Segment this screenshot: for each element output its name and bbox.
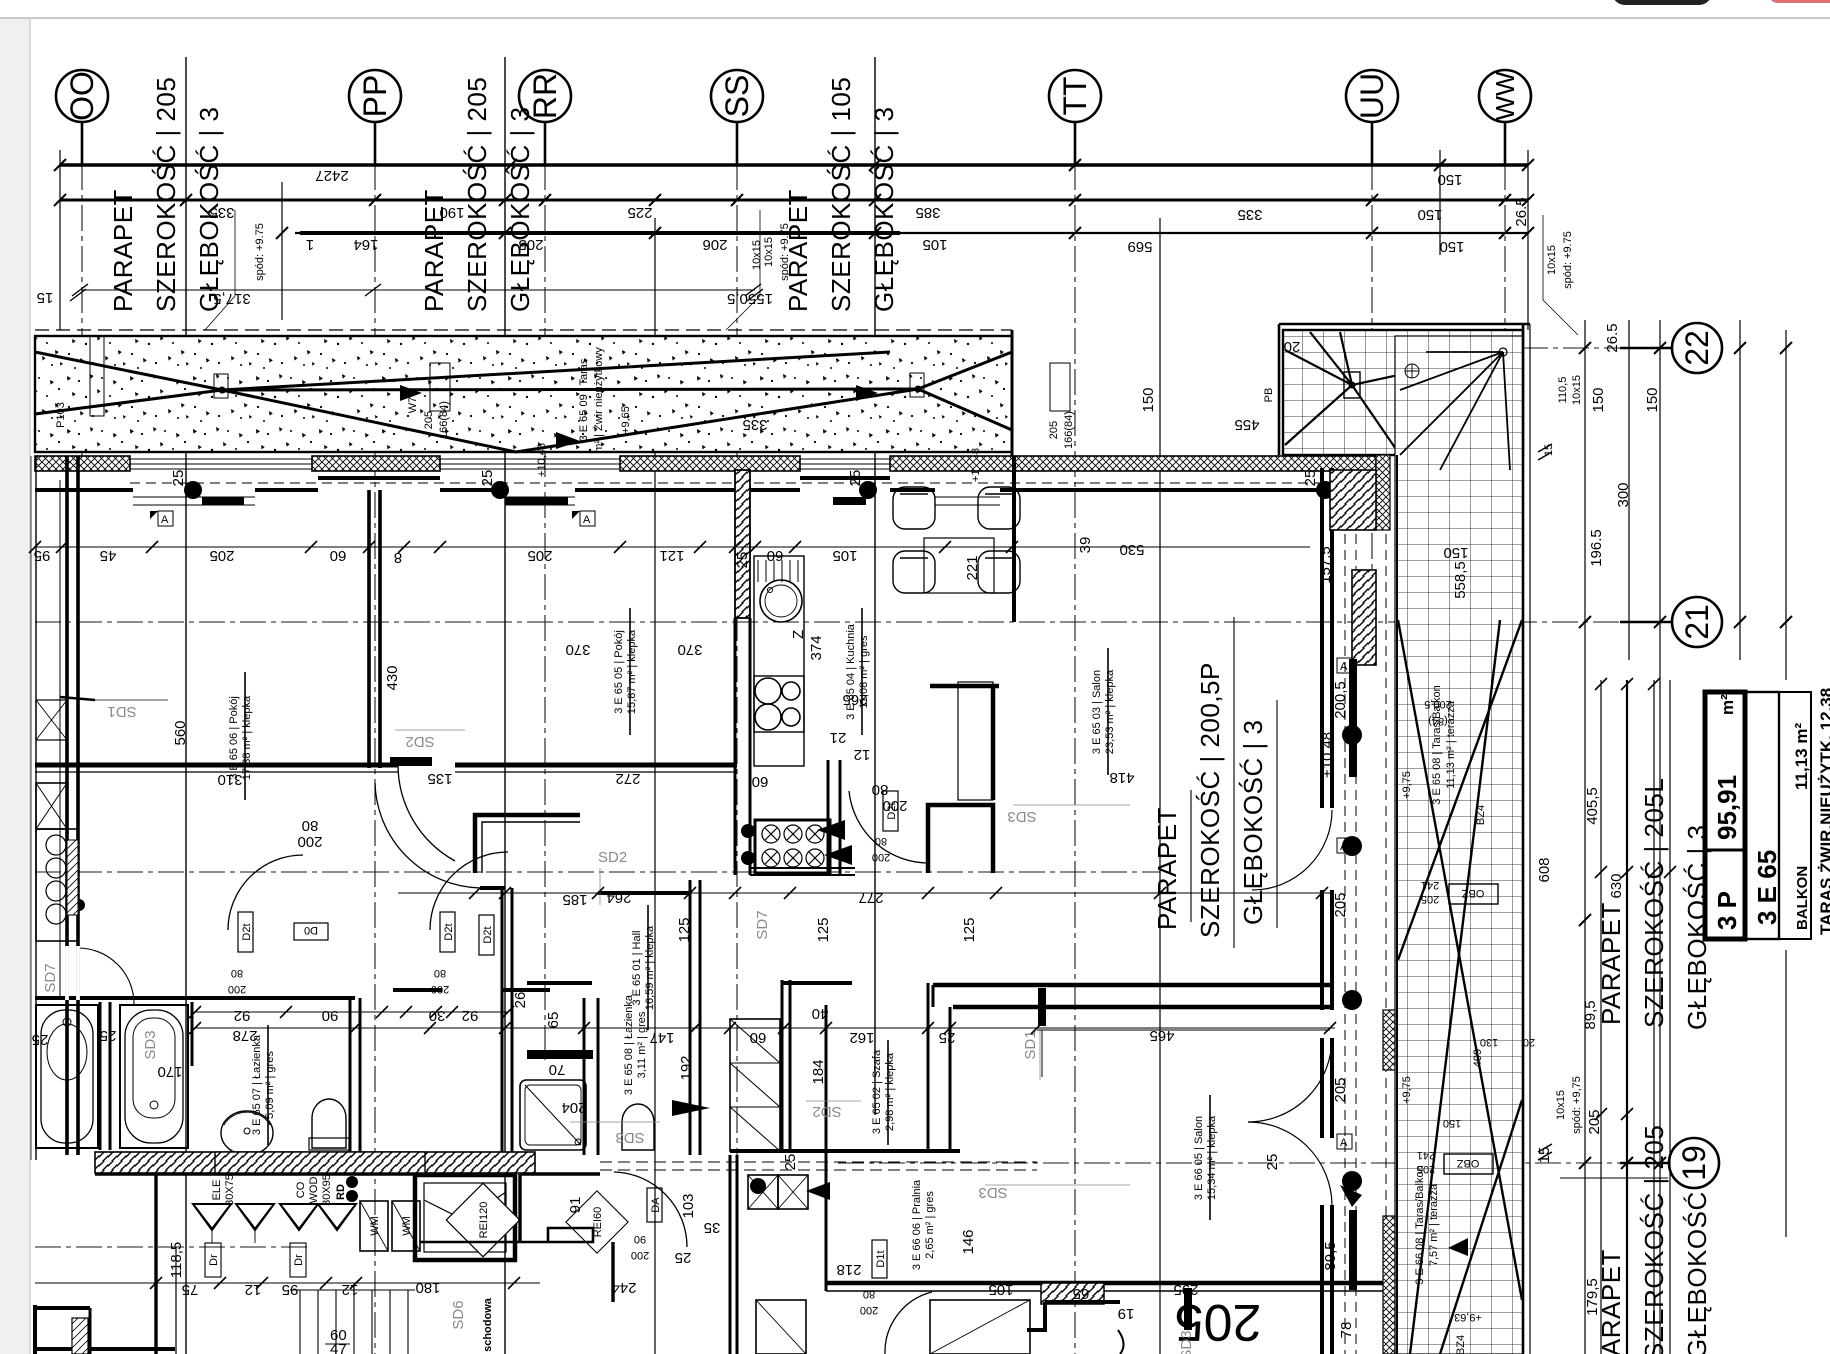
dining table bbox=[924, 538, 994, 593]
axis line 22 bbox=[1440, 347, 1668, 349]
section marker A1 bbox=[158, 511, 173, 526]
svg-text:196.5: 196.5 bbox=[1588, 529, 1605, 567]
svg-text:125: 125 bbox=[676, 917, 693, 942]
svg-text:218: 218 bbox=[836, 1261, 861, 1278]
svg-text:105: 105 bbox=[832, 547, 857, 564]
svg-text:30X75: 30X75 bbox=[224, 1174, 236, 1206]
info table right box bbox=[1779, 692, 1811, 939]
axis line UU bbox=[1371, 123, 1373, 640]
svg-text:25: 25 bbox=[782, 1154, 799, 1171]
label rule lines group4 bbox=[1190, 790, 1192, 922]
svg-text:105: 105 bbox=[988, 1281, 1013, 1298]
svg-text:265: 265 bbox=[842, 691, 867, 708]
svg-text:WM: WM bbox=[401, 1216, 413, 1236]
svg-text:103: 103 bbox=[680, 1193, 697, 1218]
exterior wall crosshatch strip seg2 bbox=[312, 456, 440, 471]
left shaft crossed box bbox=[36, 783, 67, 829]
left duct circles stack bbox=[36, 829, 78, 941]
svg-text:184: 184 bbox=[810, 1059, 827, 1084]
svg-text:170: 170 bbox=[157, 1063, 182, 1080]
wedge marks terrace bbox=[1340, 1185, 1362, 1207]
svg-text:25: 25 bbox=[675, 1249, 692, 1266]
salon1 interior dim lines bbox=[956, 546, 1310, 548]
svg-text:2,98 m² | klepka: 2,98 m² | klepka bbox=[884, 1052, 896, 1131]
elevator shaft bbox=[415, 1175, 515, 1260]
svg-text:205: 205 bbox=[209, 547, 234, 564]
svg-text:25: 25 bbox=[100, 1027, 117, 1044]
svg-text:60: 60 bbox=[330, 547, 347, 564]
svg-text:180: 180 bbox=[415, 1279, 440, 1296]
svg-text:D1t: D1t bbox=[875, 1250, 887, 1267]
extension line x186 bbox=[185, 57, 187, 1354]
svg-text:15: 15 bbox=[37, 289, 54, 306]
svg-text:75: 75 bbox=[182, 1281, 199, 1298]
svg-text:205: 205 bbox=[1421, 893, 1439, 905]
svg-text:90: 90 bbox=[634, 1233, 646, 1245]
left vertical chain x60 bbox=[59, 480, 61, 1000]
svg-text:26.5: 26.5 bbox=[1604, 323, 1621, 352]
black bar above shower bbox=[527, 1050, 593, 1059]
svg-text:25: 25 bbox=[734, 552, 751, 569]
svg-text:D0: D0 bbox=[304, 924, 318, 936]
room label lazienka2 bbox=[623, 994, 648, 1095]
svg-text:25: 25 bbox=[847, 470, 864, 487]
svg-text:A: A bbox=[1340, 1137, 1348, 1149]
chain y547 bbox=[35, 546, 1012, 548]
dimension line chain 3 bbox=[295, 232, 1528, 234]
OBZ box 1 bbox=[1449, 884, 1498, 904]
extension line x60 bbox=[59, 150, 61, 330]
browser chrome: red pill top right bbox=[1768, 0, 1830, 3]
svg-text:3 E 65 01 | Hall: 3 E 65 01 | Hall bbox=[631, 930, 643, 1005]
svg-text:5,09 m² | gres: 5,09 m² | gres bbox=[264, 1051, 276, 1119]
svg-text:15: 15 bbox=[1536, 1147, 1553, 1164]
svg-text:499: 499 bbox=[1472, 1049, 1484, 1067]
balcony parapet black bars bbox=[1349, 659, 1357, 777]
svg-text:PARAPET: PARAPET bbox=[419, 189, 449, 312]
svg-text:26.5: 26.5 bbox=[1513, 197, 1530, 226]
bath1 north wall y1000 bbox=[35, 996, 355, 1000]
dining chairs bbox=[893, 487, 1020, 593]
left outer thin lines bbox=[35, 456, 37, 1160]
svg-text:spód: +9,75: spód: +9,75 bbox=[1571, 1076, 1583, 1134]
svg-text:272: 272 bbox=[615, 770, 640, 787]
svg-text:P103: P103 bbox=[55, 402, 67, 428]
balcony door arcs salon2 french bbox=[1248, 1038, 1332, 1122]
browser chrome: left grey panel bbox=[0, 19, 29, 1354]
svg-text:65: 65 bbox=[545, 1012, 562, 1029]
section marker A2 bbox=[580, 511, 595, 526]
axis line 19 bbox=[838, 1162, 1666, 1164]
chain y1014 ticks bbox=[195, 1011, 508, 1013]
tub2 right wall bbox=[191, 1002, 194, 1066]
room label pokoj1 bbox=[228, 695, 253, 780]
svg-text:15,87 m² | klepka: 15,87 m² | klepka bbox=[626, 629, 638, 714]
extension line x655 bbox=[654, 218, 656, 1354]
svg-text:20: 20 bbox=[1523, 1036, 1535, 1048]
svg-text:241: 241 bbox=[1421, 879, 1439, 891]
svg-text:221: 221 bbox=[964, 555, 981, 580]
svg-text:m² | Żwir nieużytkowy: m² | Żwir nieużytkowy bbox=[592, 347, 605, 453]
svg-text:25: 25 bbox=[32, 1031, 49, 1048]
extension line x1160 bbox=[1159, 218, 1161, 1354]
svg-text:A: A bbox=[1340, 661, 1348, 673]
black bars doors bottom bbox=[390, 757, 432, 766]
parapet black bars bbox=[202, 497, 244, 505]
axis bubble WW bbox=[1479, 70, 1531, 122]
svg-text:150: 150 bbox=[1443, 1117, 1461, 1129]
svg-text:608: 608 bbox=[1536, 857, 1553, 882]
knot marker right bbox=[910, 373, 924, 397]
svg-text:150: 150 bbox=[1439, 238, 1464, 255]
svg-text:300: 300 bbox=[1615, 482, 1632, 507]
svg-text:569: 569 bbox=[1127, 238, 1152, 255]
svg-text:Z: Z bbox=[790, 630, 807, 639]
door tag D0 bbox=[294, 923, 328, 940]
wardrobe shelving diagonal unit bbox=[730, 1019, 780, 1151]
band left window boxes bbox=[90, 336, 104, 416]
svg-text:205: 205 bbox=[1332, 892, 1349, 917]
slab diagonal braces left bbox=[35, 352, 1012, 452]
svg-text:CO: CO bbox=[295, 1181, 307, 1198]
corridor left walls bottom bbox=[154, 1174, 157, 1354]
svg-text:370: 370 bbox=[565, 641, 590, 658]
svg-text:3 E 65 08 | Taras/Balkon: 3 E 65 08 | Taras/Balkon bbox=[1431, 685, 1443, 804]
svg-text:A: A bbox=[1340, 841, 1348, 853]
svg-text:GŁĘBOKOŚĆ | 3: GŁĘBOKOŚĆ | 3 bbox=[869, 107, 899, 312]
wardrobe bottom wall y1151 bbox=[730, 1149, 960, 1153]
svg-text:374: 374 bbox=[808, 635, 825, 660]
svg-text:118,5: 118,5 bbox=[168, 1242, 185, 1278]
svg-text:SD7: SD7 bbox=[754, 910, 771, 939]
svg-text:80: 80 bbox=[302, 817, 319, 834]
Dr box 1 bbox=[205, 1243, 221, 1277]
svg-text:3 E 65: 3 E 65 bbox=[1752, 850, 1782, 925]
svg-text:3 E 65 02 | Szafa: 3 E 65 02 | Szafa bbox=[871, 1049, 883, 1134]
svg-text:SD6: SD6 bbox=[450, 1300, 467, 1329]
toilet bath1 bbox=[312, 1099, 346, 1148]
svg-text:60: 60 bbox=[752, 773, 769, 790]
svg-text:150: 150 bbox=[1590, 387, 1607, 412]
svg-text:8: 8 bbox=[394, 549, 402, 566]
REI60 diamond bbox=[566, 1191, 628, 1253]
double slash marks bbox=[1538, 444, 1552, 460]
bath1 east wall x355 bbox=[349, 998, 352, 1155]
svg-text:SD3: SD3 bbox=[615, 1129, 644, 1146]
svg-text:RD: RD bbox=[335, 1184, 347, 1200]
svg-text:25: 25 bbox=[1264, 1154, 1281, 1171]
svg-text:D2t: D2t bbox=[482, 926, 494, 943]
svg-text:PB: PB bbox=[1263, 388, 1275, 403]
svg-text:39: 39 bbox=[1077, 537, 1094, 554]
svg-text:185: 185 bbox=[562, 891, 587, 908]
info table outer thick box bbox=[1705, 692, 1745, 939]
room label salon1 bbox=[1091, 669, 1116, 754]
svg-text:205: 205 bbox=[1332, 1077, 1349, 1102]
svg-text:TT: TT bbox=[1057, 76, 1093, 115]
bath1 wall between tubs bbox=[99, 1002, 102, 1150]
svg-text:95: 95 bbox=[34, 547, 51, 564]
info table mid box bbox=[1745, 692, 1779, 939]
top-right balcony diagonals bbox=[1285, 332, 1505, 625]
svg-text:166(84): 166(84) bbox=[438, 401, 450, 439]
axis19 extra thin line bbox=[1560, 1177, 1668, 1179]
dimension line chain 1 bbox=[60, 163, 1528, 167]
svg-text:335: 335 bbox=[742, 416, 767, 433]
svg-text:205: 205 bbox=[423, 411, 435, 429]
svg-text:12: 12 bbox=[854, 746, 871, 763]
wall x1014 dining-salon bbox=[1012, 456, 1016, 622]
terrace top edge bbox=[1279, 323, 1530, 326]
washer boxes WM bbox=[360, 1201, 388, 1251]
salon north double wall bbox=[933, 983, 1330, 988]
svg-text:19: 19 bbox=[1676, 1145, 1712, 1181]
svg-text:200: 200 bbox=[860, 1304, 878, 1316]
exterior wall crosshatch strip seg1 bbox=[35, 456, 130, 471]
svg-text:92: 92 bbox=[462, 1007, 479, 1024]
salon2 threshold black bar bbox=[1038, 988, 1046, 1026]
A markers on salon east wall bbox=[1337, 658, 1352, 673]
balcony slab speckled concrete bbox=[35, 336, 1012, 452]
shower bath2 bbox=[520, 1080, 586, 1150]
room label hall bbox=[631, 925, 656, 1010]
svg-text:+9,75: +9,75 bbox=[1401, 771, 1413, 799]
svg-text:OBZ: OBZ bbox=[1461, 887, 1484, 899]
svg-text:146: 146 bbox=[960, 1229, 977, 1254]
svg-text:95: 95 bbox=[282, 1281, 299, 1298]
hall south walls y888 bbox=[480, 886, 505, 890]
room label pokoj2 bbox=[613, 629, 638, 714]
svg-text:BALKON: BALKON bbox=[1794, 866, 1811, 930]
terrace top corner fan diagonals bbox=[1400, 352, 1510, 470]
svg-text:23,53 m² | klepka: 23,53 m² | klepka bbox=[1104, 669, 1116, 754]
svg-text:335: 335 bbox=[1237, 206, 1262, 223]
axis bubble RR bbox=[519, 70, 571, 122]
knot marker left bbox=[214, 374, 228, 398]
svg-text:SD1: SD1 bbox=[1022, 1030, 1039, 1059]
svg-text:121: 121 bbox=[659, 547, 684, 564]
extension line x282 bbox=[281, 182, 283, 320]
svg-text:+10,48: +10,48 bbox=[536, 443, 548, 477]
svg-text:schodowa: schodowa bbox=[482, 1297, 494, 1352]
svg-text:135: 135 bbox=[427, 770, 452, 787]
svg-text:3 E 66 05 | Salon: 3 E 66 05 | Salon bbox=[1193, 1116, 1205, 1200]
left small hatch block bbox=[67, 840, 78, 915]
room label kuchnia bbox=[845, 623, 870, 720]
svg-text:164: 164 bbox=[353, 236, 378, 253]
svg-text:SD1: SD1 bbox=[107, 703, 136, 720]
svg-text:3 E 65 06 | Pokój: 3 E 65 06 | Pokój bbox=[228, 696, 240, 780]
svg-text:92: 92 bbox=[234, 1007, 251, 1024]
salon east wall x1322-1332 bbox=[1320, 468, 1324, 808]
wall between pokoj rooms vertical x375 bbox=[367, 490, 371, 768]
svg-text:3 E 66 08 | Taras/Balkon: 3 E 66 08 | Taras/Balkon bbox=[1414, 1165, 1426, 1284]
shaft triangles ELE bbox=[193, 1204, 231, 1230]
pralnia lower cabinet bbox=[756, 1300, 806, 1354]
szafa room walls bbox=[927, 983, 930, 1153]
svg-text:80: 80 bbox=[231, 967, 243, 979]
svg-text:3 E 65 07 | Łazienka: 3 E 65 07 | Łazienka bbox=[251, 1034, 263, 1135]
svg-text:80: 80 bbox=[863, 1288, 875, 1300]
door arc bedroom1 bbox=[228, 855, 303, 930]
svg-text:+10,48: +10,48 bbox=[1319, 732, 1336, 778]
window sill thin lines bbox=[130, 483, 1330, 505]
axis bubble UU bbox=[1346, 70, 1398, 122]
dimension line chain 2 bbox=[60, 199, 1528, 202]
axis bubble 22 bbox=[1672, 323, 1722, 373]
svg-text:21: 21 bbox=[1679, 604, 1715, 640]
extension line x1440 bbox=[1439, 150, 1441, 255]
svg-text:10x15: 10x15 bbox=[1571, 375, 1583, 405]
svg-text:200: 200 bbox=[872, 851, 890, 863]
svg-text:3 E 66 06 | Pralnia: 3 E 66 06 | Pralnia bbox=[911, 1179, 923, 1270]
svg-text:SD2: SD2 bbox=[812, 1103, 841, 1120]
corridor south wall y1174 bbox=[95, 1172, 425, 1175]
svg-text:WOD: WOD bbox=[308, 1177, 320, 1204]
hatched pier bottom bbox=[1041, 1283, 1104, 1304]
svg-text:+9,65: +9,65 bbox=[620, 406, 632, 434]
washbasin bath1 bbox=[221, 1111, 273, 1155]
axis line 21 bbox=[35, 621, 1668, 623]
svg-text:m²: m² bbox=[1718, 694, 1737, 715]
svg-text:89,5: 89,5 bbox=[1322, 1241, 1339, 1270]
svg-text:3 E 65 05 | Pokój: 3 E 65 05 | Pokój bbox=[613, 630, 625, 714]
svg-text:REI120: REI120 bbox=[478, 1202, 490, 1239]
svg-text:105: 105 bbox=[922, 236, 947, 253]
svg-text:91: 91 bbox=[567, 1197, 584, 1214]
axis bubble 19 bbox=[1669, 1138, 1719, 1188]
core small walls bbox=[548, 1228, 593, 1242]
svg-text:SZEROKOŚĆ | 105: SZEROKOŚĆ | 105 bbox=[826, 77, 856, 312]
svg-text:TARAS ŻWIR.NIEUŻYTK. 12,38: TARAS ŻWIR.NIEUŻYTK. 12,38 bbox=[1817, 688, 1830, 935]
tick marks chains bbox=[54, 159, 1534, 239]
svg-text:89,5: 89,5 bbox=[1582, 1000, 1599, 1029]
svg-text:244: 244 bbox=[611, 1279, 636, 1296]
svg-text:264: 264 bbox=[606, 889, 631, 906]
elevator hatched wall bbox=[215, 1152, 425, 1173]
svg-text:310: 310 bbox=[217, 771, 242, 788]
column dots on top wall bbox=[184, 481, 202, 499]
svg-text:277: 277 bbox=[858, 889, 883, 906]
balcony slab dashed top edge bbox=[35, 329, 1012, 331]
svg-text:12: 12 bbox=[245, 1281, 262, 1298]
svg-text:BZ4: BZ4 bbox=[1475, 805, 1487, 825]
svg-text:30: 30 bbox=[429, 1007, 446, 1024]
svg-text:OBZ: OBZ bbox=[1456, 1157, 1479, 1169]
pralnia shaft crossed boxes bbox=[748, 1175, 778, 1209]
door arc salon from hall bbox=[849, 791, 929, 863]
right extension verticals bbox=[1584, 320, 1586, 1354]
bottom salon south wall y1283 bbox=[826, 1281, 1386, 1286]
chain y1028 bbox=[195, 1027, 1335, 1029]
OBZ box 2 bbox=[1444, 1154, 1493, 1174]
svg-text:200: 200 bbox=[297, 833, 322, 850]
svg-text:385: 385 bbox=[915, 204, 940, 221]
svg-text:SD3: SD3 bbox=[1007, 808, 1036, 825]
browser chrome: dark pill top bbox=[1612, 0, 1712, 5]
svg-text:17,38 m² | klepka: 17,38 m² | klepka bbox=[241, 695, 253, 780]
svg-text:80: 80 bbox=[872, 781, 889, 798]
svg-text:SZEROKOŚĆ | 205: SZEROKOŚĆ | 205 bbox=[151, 77, 181, 312]
axis bubble SS bbox=[711, 70, 763, 122]
svg-text:80: 80 bbox=[434, 967, 446, 979]
svg-text:147: 147 bbox=[649, 1029, 674, 1046]
svg-text:90: 90 bbox=[322, 1007, 339, 1024]
pi wall hall-salon bbox=[928, 805, 993, 873]
svg-text:26: 26 bbox=[512, 992, 529, 1009]
door arc room1 top y765 bbox=[398, 765, 455, 861]
axis bubble 21 bbox=[1672, 597, 1722, 647]
svg-text:130: 130 bbox=[1480, 1036, 1498, 1048]
svg-text:241: 241 bbox=[1417, 1149, 1435, 1161]
main horizontal wall y765 bbox=[35, 763, 398, 768]
svg-text:GŁĘBOKOŚĆ | 3: GŁĘBOKOŚĆ | 3 bbox=[1238, 720, 1268, 925]
door arc hall west bbox=[375, 783, 480, 888]
kitchen east wall x828-840 bbox=[827, 760, 830, 875]
bathtub 2 SD3 bbox=[120, 1005, 188, 1148]
svg-text:3 E 65 08 | Łazienka: 3 E 65 08 | Łazienka bbox=[623, 994, 635, 1095]
svg-text:205: 205 bbox=[1048, 421, 1060, 439]
crosshatch wall pieces right bbox=[1376, 455, 1390, 530]
kitchen west wall x735-750 bbox=[735, 470, 750, 618]
door arc bath2 bbox=[614, 1172, 687, 1247]
svg-text:UU: UU bbox=[1354, 73, 1390, 119]
svg-text:WW: WW bbox=[1490, 71, 1520, 121]
axis bubble OO bbox=[56, 70, 108, 122]
terrace long diagonals bbox=[1398, 620, 1522, 1354]
svg-text:D2t: D2t bbox=[443, 923, 455, 940]
left exterior wall double line bbox=[65, 456, 69, 1155]
axis line OO bbox=[81, 123, 83, 470]
svg-text:225: 225 bbox=[627, 204, 652, 221]
terrace outer edge double bbox=[1522, 324, 1525, 1354]
svg-text:3 P: 3 P bbox=[1712, 891, 1742, 930]
bath2 east wall x690-700 bbox=[689, 880, 692, 1155]
svg-text:35: 35 bbox=[704, 1219, 721, 1236]
svg-text:10x15: 10x15 bbox=[763, 237, 775, 267]
corridor hatched strip bbox=[95, 1152, 1281, 1173]
svg-text:30X95: 30X95 bbox=[321, 1174, 333, 1206]
svg-text:3 E 65 09 | Taras: 3 E 65 09 | Taras bbox=[578, 358, 590, 441]
axis line 20 bbox=[35, 871, 1160, 873]
axis line SS bbox=[736, 123, 738, 1354]
svg-text:125: 125 bbox=[961, 917, 978, 942]
svg-text:16,59 m² | klepka: 16,59 m² | klepka bbox=[644, 925, 656, 1010]
bottom left corner walls bbox=[33, 1305, 37, 1354]
svg-text:166(84): 166(84) bbox=[1063, 411, 1075, 449]
column dots terrace bbox=[1342, 725, 1362, 745]
closet kitchen-salon bbox=[958, 682, 993, 800]
svg-text:370: 370 bbox=[677, 641, 702, 658]
REI120 diamond bbox=[446, 1183, 520, 1257]
svg-text:PARAPET: PARAPET bbox=[108, 189, 138, 312]
extension line x875 bbox=[874, 57, 876, 1115]
kitchen counter outline bbox=[754, 556, 804, 766]
svg-text:150: 150 bbox=[1644, 387, 1661, 412]
svg-text:SD2: SD2 bbox=[598, 849, 627, 866]
svg-text:+9,75: +9,75 bbox=[1401, 1076, 1413, 1104]
svg-text:405,5: 405,5 bbox=[1584, 787, 1601, 825]
exterior wall crosshatch strip seg3 bbox=[620, 456, 800, 471]
svg-text:spód: +9.75: spód: +9.75 bbox=[1562, 231, 1574, 289]
terrace door sill dashed lines bbox=[1345, 470, 1386, 1354]
bath2 west wall x505 bbox=[501, 888, 504, 1152]
svg-text:150: 150 bbox=[1417, 206, 1442, 223]
pralnia east wall bbox=[825, 1190, 828, 1291]
axis bubble PP bbox=[349, 70, 401, 122]
svg-text:80: 80 bbox=[875, 835, 887, 847]
kitchen bottom shelf y870 bbox=[750, 867, 855, 869]
